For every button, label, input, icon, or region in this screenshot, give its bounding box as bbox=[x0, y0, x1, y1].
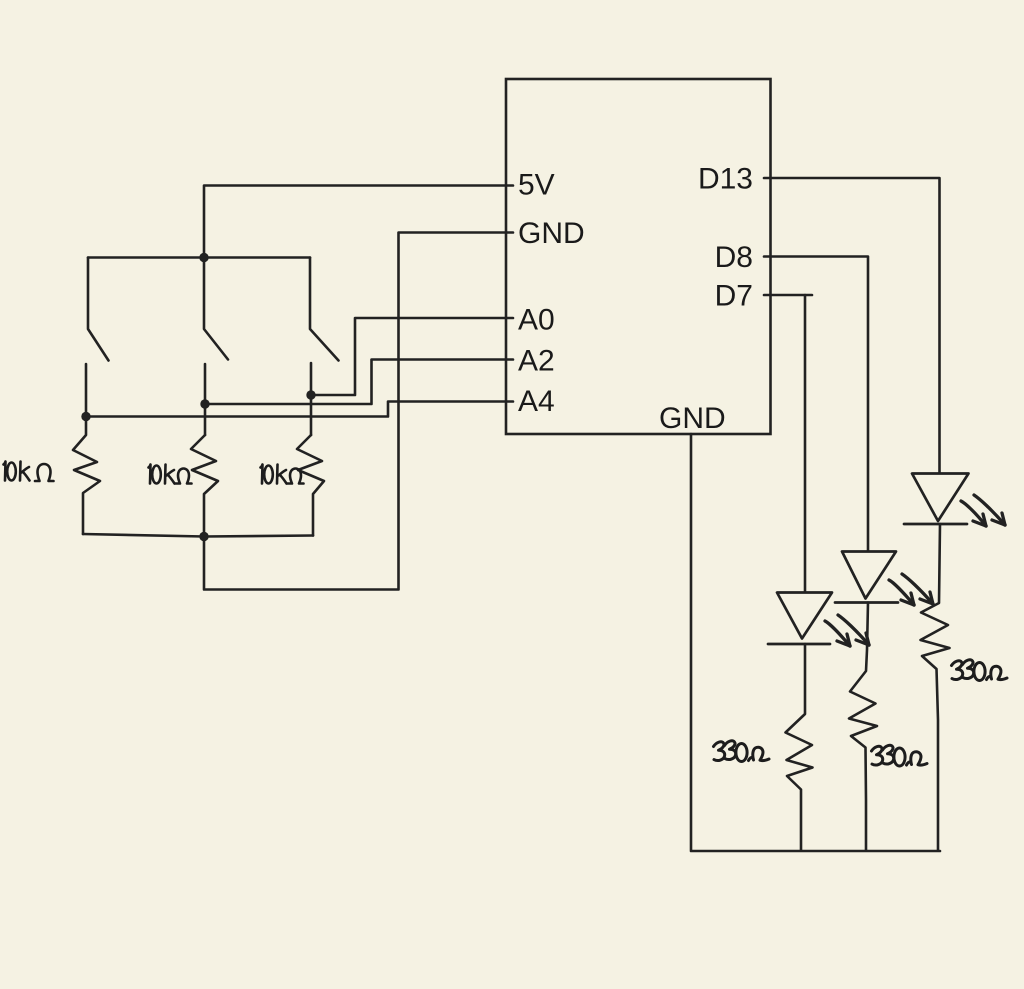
svg-text:D13: D13 bbox=[698, 163, 753, 196]
svg-text:A0: A0 bbox=[518, 304, 555, 337]
svg-text:GND: GND bbox=[659, 402, 726, 435]
svg-text:A2: A2 bbox=[518, 345, 555, 378]
svg-text:GND: GND bbox=[518, 217, 585, 250]
svg-text:D8: D8 bbox=[715, 241, 753, 274]
svg-text:5V: 5V bbox=[518, 169, 555, 202]
svg-text:D7: D7 bbox=[715, 280, 753, 313]
svg-text:A4: A4 bbox=[518, 385, 555, 418]
